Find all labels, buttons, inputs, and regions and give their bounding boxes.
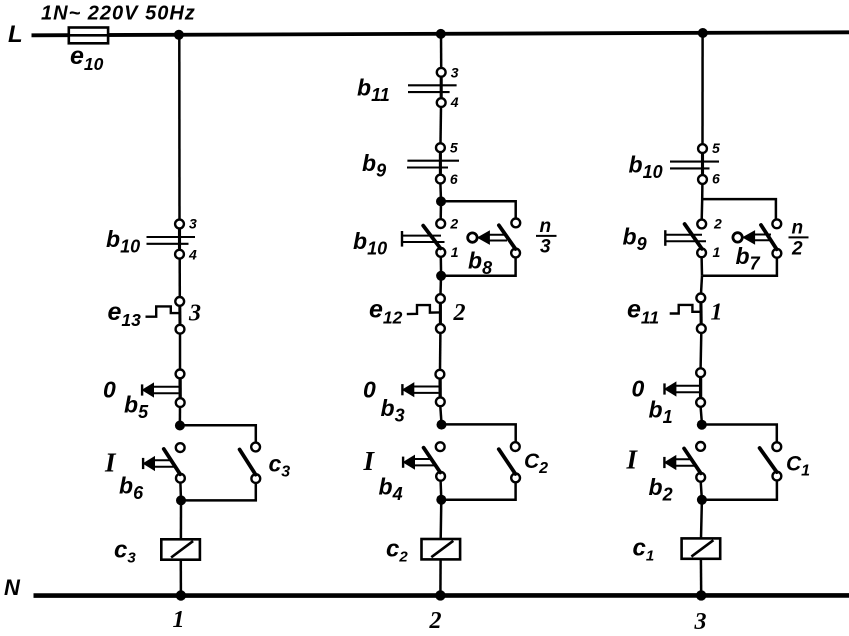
wire to c3 contact branch (181, 425, 256, 442)
wire to c1 contact branch (702, 425, 777, 443)
node branch1 parallel top junction (175, 421, 185, 431)
fuse e10 (69, 28, 108, 44)
wire b4 to junction (439, 481, 442, 500)
wire b9 contact to tee (700, 257, 703, 276)
wire c1 contact to junction (703, 480, 777, 500)
node branch3 parallel bottom junction (697, 495, 707, 505)
svg-text:1: 1 (451, 244, 459, 260)
relay coil c1 (682, 538, 721, 558)
svg-text:0: 0 (363, 377, 376, 403)
wire junction to b10 contact (439, 201, 442, 219)
svg-text:I: I (626, 445, 639, 475)
svg-text:2: 2 (453, 300, 466, 326)
node N junction 2 (435, 590, 445, 600)
wire b7 to lower tee (703, 258, 777, 276)
svg-text:n: n (792, 218, 804, 239)
pushbutton b4 (NO, start I) (436, 442, 445, 480)
thermal contact e11 (670, 294, 706, 334)
node branch2 parallel bottom junction (436, 495, 446, 505)
node L-branch 2 junction (436, 29, 446, 39)
svg-text:2: 2 (449, 216, 458, 232)
wire b5 to junction (179, 407, 182, 422)
wire branch2 drop from L (440, 34, 443, 68)
wire b3 to junction (440, 406, 441, 420)
wire branch3 drop from L (701, 33, 704, 145)
wire b6 to junction (179, 483, 182, 501)
svg-text:4: 4 (450, 94, 459, 110)
contact b11 terminals 3-4 (408, 68, 457, 107)
svg-text:N: N (4, 575, 21, 600)
node branch2 upper parallel junction (436, 196, 446, 206)
wire junction to coil c2 (439, 500, 442, 539)
release switch b7 (772, 219, 781, 257)
wire junction to coil c1 (700, 500, 703, 539)
wire b9 to junction (439, 183, 442, 197)
wire L bus (32, 32, 849, 35)
svg-text:3: 3 (540, 237, 551, 258)
wire branch1 drop from L (178, 35, 181, 220)
wire b10 to tee (701, 184, 704, 199)
label n/2 fraction (789, 218, 809, 260)
pushbutton b2 (NO, start I) (696, 442, 705, 482)
node L-branch 1 junction (174, 30, 184, 40)
pushbutton b1 (NC, stop 0) (696, 368, 705, 406)
switch b9 (latching contact 1-2) (697, 220, 706, 258)
pushbutton b6 (NO, start I) (176, 443, 185, 482)
wire coil c2 to N (439, 560, 442, 596)
pushbutton b5 (NC, stop 0) (176, 370, 185, 408)
wire c3 contact to junction (182, 483, 256, 501)
pushbutton b3 (NC, stop 0) (436, 370, 445, 406)
node branch2 parallel top junction (437, 420, 447, 430)
svg-text:I: I (104, 448, 117, 478)
contact b10 terminals 5-6 (670, 144, 719, 184)
node branch1 parallel bottom junction (176, 495, 186, 505)
switch b10 (latching contact 1-2) (436, 219, 445, 257)
wire to c2 contact branch (442, 424, 516, 442)
relay contact c3 (NO) (251, 443, 260, 483)
wire junction to b8 branch (442, 201, 516, 219)
svg-text:0: 0 (632, 376, 645, 402)
wire b11 to b9 (439, 107, 442, 143)
relay contact c1 (NO) (772, 442, 781, 480)
wire c2 contact to junction (442, 482, 516, 500)
wire e12 to b3 (439, 333, 442, 370)
release switch b8 (511, 219, 520, 258)
svg-text:n: n (540, 216, 552, 237)
relay contact c2 (NO) (511, 442, 520, 482)
svg-text:3: 3 (189, 216, 197, 232)
thermal contact e12 (407, 294, 445, 333)
svg-text:2: 2 (791, 239, 803, 260)
svg-text:0: 0 (103, 377, 116, 403)
wire N bus (34, 593, 849, 598)
svg-text:1: 1 (711, 300, 723, 326)
svg-text:3: 3 (694, 609, 707, 631)
svg-text:1: 1 (173, 607, 185, 631)
svg-text:6: 6 (450, 171, 458, 187)
svg-text:1: 1 (713, 244, 721, 260)
svg-text:2: 2 (713, 216, 722, 232)
svg-text:I: I (363, 446, 376, 476)
wire b2 to junction (701, 482, 702, 500)
node N junction 1 (176, 590, 186, 600)
wire tee to e11 (701, 276, 702, 294)
wire b10 to e13 (178, 259, 181, 298)
svg-text:1N~ 220V 50Hz: 1N~ 220V 50Hz (41, 3, 196, 25)
relay coil c2 (422, 539, 461, 559)
contact b9 terminals 5-6 (407, 143, 459, 183)
wire junction to e12 (439, 276, 442, 295)
relay coil c3 (161, 539, 200, 559)
wire e11 to b1 (699, 333, 702, 369)
wire b8 to lower junction (442, 257, 516, 276)
svg-text:5: 5 (712, 140, 720, 156)
svg-text:L: L (8, 21, 23, 48)
svg-text:3: 3 (188, 301, 201, 327)
node N junction 3 (696, 590, 706, 600)
contact b10 terminals 3-4 (147, 220, 196, 259)
wire tee to b9 contact (700, 199, 703, 220)
svg-text:6: 6 (712, 171, 720, 187)
wire b10 contact to junction (440, 257, 443, 276)
thermal contact e13 (146, 297, 185, 334)
wire tee to b7 branch (701, 199, 776, 219)
svg-text:5: 5 (450, 140, 458, 156)
node branch2 lower parallel junction (436, 271, 446, 281)
label n/3 fraction (536, 216, 557, 258)
node branch3 parallel top junction (697, 420, 707, 430)
wire coil c1 to N (700, 559, 703, 596)
wire b1 to junction (701, 407, 702, 421)
node L-branch 3 junction (698, 28, 708, 38)
wire junction to coil c3 (180, 500, 183, 539)
wire e13 to b5 (179, 334, 182, 370)
svg-text:4: 4 (188, 247, 197, 263)
wire coil c3 to N (180, 560, 183, 596)
svg-text:2: 2 (429, 608, 442, 631)
svg-text:3: 3 (451, 65, 459, 81)
